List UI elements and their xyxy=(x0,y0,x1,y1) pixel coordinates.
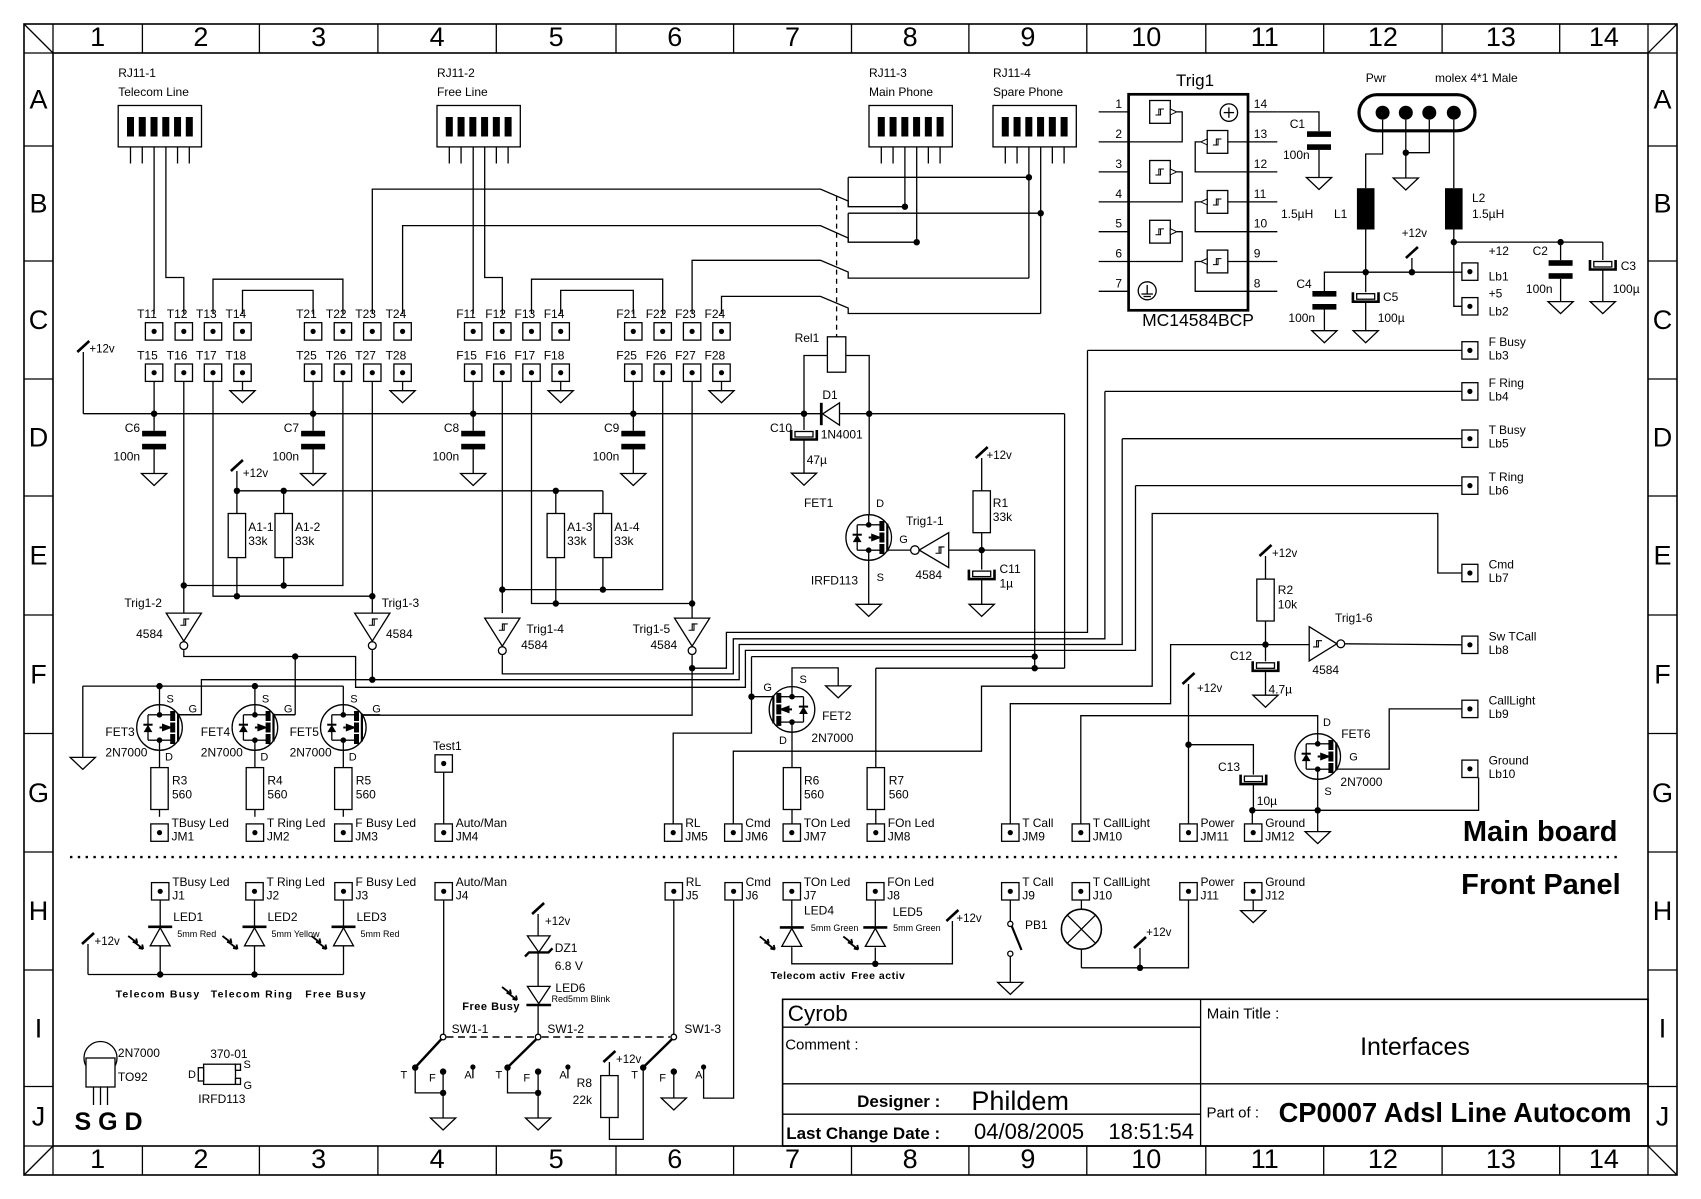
svg-text:T: T xyxy=(401,1070,408,1082)
svg-text:+12v: +12v xyxy=(95,936,121,948)
svg-text:T24: T24 xyxy=(386,307,407,321)
+12v switch symbol xyxy=(1402,228,1428,275)
ground at FET2 source xyxy=(792,668,851,698)
svg-text:33k: 33k xyxy=(567,534,587,548)
svg-text:H: H xyxy=(29,896,49,926)
label Telecom Busy xyxy=(116,989,201,1001)
svg-text:RJ11-2: RJ11-2 xyxy=(437,66,475,80)
connector RJ11-2 xyxy=(437,66,520,164)
svg-text:F11: F11 xyxy=(456,307,476,321)
svg-text:D: D xyxy=(29,423,49,453)
svg-text:Cmd: Cmd xyxy=(1489,558,1514,572)
+12v supply symbol (front panel LEDs) xyxy=(82,933,120,975)
svg-text:Telecom Busy: Telecom Busy xyxy=(116,989,201,1001)
svg-text:5: 5 xyxy=(549,1144,564,1174)
svg-text:5mm Red: 5mm Red xyxy=(177,929,216,939)
svg-text:Front Panel: Front Panel xyxy=(1461,869,1621,901)
connector RJ11-4 xyxy=(993,66,1076,164)
svg-text:6.8 V: 6.8 V xyxy=(555,959,583,973)
connector J7 (TOn Led) xyxy=(783,875,850,903)
svg-text:22k: 22k xyxy=(573,1093,593,1107)
wire R2 bottom xyxy=(1262,621,1268,648)
wire Trig1-5 output to Lb3 (F Busy) xyxy=(692,350,1087,668)
svg-text:560: 560 xyxy=(889,788,909,802)
svg-text:T Busy: T Busy xyxy=(1489,423,1526,437)
wire T26 to T16 node xyxy=(184,381,343,588)
svg-text:LED5: LED5 xyxy=(893,905,923,919)
svg-text:FET5: FET5 xyxy=(290,725,320,739)
svg-text:Trig1-2: Trig1-2 xyxy=(124,596,162,610)
svg-text:3: 3 xyxy=(311,22,326,52)
svg-text:JM7: JM7 xyxy=(804,830,827,844)
wire LED4/LED5 to +12v xyxy=(792,921,953,967)
svg-text:9: 9 xyxy=(1020,22,1035,52)
svg-text:560: 560 xyxy=(356,788,376,802)
svg-text:4: 4 xyxy=(430,22,445,52)
svg-text:MC14584BCP: MC14584BCP xyxy=(1142,310,1254,330)
svg-text:D1: D1 xyxy=(822,388,838,402)
svg-text:D: D xyxy=(188,1069,196,1081)
svg-text:JM6: JM6 xyxy=(745,830,768,844)
svg-text:100n: 100n xyxy=(1283,148,1310,162)
capacitor C1 100n xyxy=(1283,117,1332,190)
svg-text:F23: F23 xyxy=(675,307,696,321)
terminal F11 xyxy=(456,307,482,340)
svg-text:JM1: JM1 xyxy=(172,830,195,844)
svg-text:JM2: JM2 xyxy=(267,830,290,844)
inverter Trig1-2 (4584) xyxy=(124,596,201,649)
svg-text:13: 13 xyxy=(1486,22,1516,52)
wire R6 to JM7 xyxy=(791,810,793,824)
wire loop T14 to T21 xyxy=(243,290,314,314)
connector J6 (Cmd) xyxy=(725,875,771,903)
wire FET2 gate xyxy=(748,694,773,700)
capacitor C12 4.7µ xyxy=(1230,645,1292,708)
svg-text:J8: J8 xyxy=(887,889,900,903)
switch SW1-3 xyxy=(640,900,721,1071)
connector J3 (F Busy Led) xyxy=(335,875,416,903)
svg-text:Trig1-6: Trig1-6 xyxy=(1335,611,1373,625)
terminal F25 xyxy=(616,349,642,382)
svg-text:+12v: +12v xyxy=(1272,548,1298,560)
svg-text:I: I xyxy=(1659,1013,1667,1043)
svg-text:560: 560 xyxy=(804,788,824,802)
svg-text:A: A xyxy=(695,1070,703,1082)
svg-text:A: A xyxy=(1653,85,1671,115)
resistor R7 560 xyxy=(867,768,909,810)
connector J11 (Power) xyxy=(1180,875,1235,903)
svg-text:F16: F16 xyxy=(485,349,506,363)
label connector Lb5 (T Busy) xyxy=(1462,423,1526,451)
svg-text:10: 10 xyxy=(1254,217,1268,231)
svg-text:Cyrob: Cyrob xyxy=(788,1001,848,1026)
wire T16 to Trig1-2 input xyxy=(181,381,187,613)
svg-text:C: C xyxy=(29,305,49,335)
svg-text:Power: Power xyxy=(1201,875,1235,889)
svg-text:33k: 33k xyxy=(993,510,1013,524)
svg-text:Lb1: Lb1 xyxy=(1489,270,1509,284)
wire ground bus to Lb10 xyxy=(1252,778,1478,811)
svg-text:F21: F21 xyxy=(616,307,637,321)
svg-text:+12v: +12v xyxy=(243,468,269,480)
svg-text:C5: C5 xyxy=(1383,290,1399,304)
wire T25 to bus xyxy=(312,381,314,413)
svg-text:F27: F27 xyxy=(675,349,696,363)
connector JM11 (Power) xyxy=(1180,816,1235,844)
svg-text:C11: C11 xyxy=(1000,562,1021,576)
svg-text:13: 13 xyxy=(1254,127,1268,141)
svg-text:6: 6 xyxy=(667,1144,682,1174)
svg-text:J4: J4 xyxy=(456,889,469,903)
terminal T18 xyxy=(226,349,252,382)
+12v supply symbol (R2) xyxy=(1260,545,1298,579)
wire loop F13 to F22 xyxy=(532,279,663,314)
+12v supply symbol (DZ1) xyxy=(532,903,570,936)
svg-text:33k: 33k xyxy=(295,534,315,548)
svg-text:LED3: LED3 xyxy=(357,910,387,924)
svg-text:JM10: JM10 xyxy=(1093,830,1123,844)
wire +5 to Lb2 xyxy=(1454,242,1470,306)
ground at T28 xyxy=(390,381,415,402)
SW1-2 contacts and ground xyxy=(496,1064,571,1130)
transistor FET6 2N7000 xyxy=(1295,717,1383,798)
terminal T22 xyxy=(326,307,352,340)
connector J12 (Ground) xyxy=(1245,875,1306,903)
LED LED3 5mm Red xyxy=(312,900,400,975)
svg-text:5mm Green: 5mm Green xyxy=(893,923,941,933)
svg-text:F Busy: F Busy xyxy=(1489,335,1526,349)
svg-text:T13: T13 xyxy=(196,307,217,321)
terminal F13 xyxy=(515,307,541,340)
svg-text:F Busy Led: F Busy Led xyxy=(356,875,417,889)
svg-text:A: A xyxy=(464,1070,472,1082)
svg-text:12: 12 xyxy=(1368,22,1398,52)
svg-text:J2: J2 xyxy=(267,889,280,903)
svg-text:8: 8 xyxy=(903,22,918,52)
terminal T16 xyxy=(167,349,193,382)
wire LED5 cathode down xyxy=(874,948,876,964)
capacitor C13 10µ xyxy=(1218,760,1277,810)
svg-text:C13: C13 xyxy=(1218,760,1240,774)
connector J9 (T Call) xyxy=(1002,875,1054,903)
svg-text:S G D: S G D xyxy=(75,1108,143,1136)
connector JM3 (F Busy Led) xyxy=(335,816,416,844)
svg-text:10µ: 10µ xyxy=(1257,794,1277,808)
inductor L2 1.5µH xyxy=(1445,188,1504,229)
title block xyxy=(783,999,1648,1146)
terminal T28 xyxy=(386,349,412,382)
wire FET2 drain to R6 xyxy=(791,732,793,767)
svg-text:C1: C1 xyxy=(1290,117,1306,131)
svg-text:J: J xyxy=(32,1101,46,1131)
terminal T14 xyxy=(226,307,252,340)
svg-text:1: 1 xyxy=(1115,97,1122,111)
label Free activ xyxy=(851,970,905,982)
svg-text:S: S xyxy=(167,694,174,706)
svg-text:11: 11 xyxy=(1251,1144,1279,1174)
wire RJ11-2 pin4 to F12 xyxy=(485,147,503,314)
svg-text:FOn Led: FOn Led xyxy=(887,875,934,889)
svg-text:+12v: +12v xyxy=(956,913,982,925)
svg-text:4.7µ: 4.7µ xyxy=(1269,683,1293,697)
svg-text:1: 1 xyxy=(90,22,105,52)
wire Trig1-5 output to FET5 gate xyxy=(362,655,696,715)
svg-text:Lb10: Lb10 xyxy=(1489,767,1516,781)
resistor A1-4 33k xyxy=(594,514,640,558)
zener diode DZ1 6.8V xyxy=(525,936,583,973)
labels LED4 xyxy=(804,904,858,934)
LED LED4 5mm Green xyxy=(760,900,804,950)
svg-text:4584: 4584 xyxy=(1312,663,1339,677)
wire JM10 to FET6 drain xyxy=(1081,716,1318,824)
capacitor C7 100n xyxy=(272,414,325,486)
svg-text:1N4001: 1N4001 xyxy=(821,428,863,442)
svg-text:100n: 100n xyxy=(1288,311,1315,325)
terminal F21 xyxy=(616,307,642,340)
package drawing 2N7000 TO92 xyxy=(75,1042,161,1137)
svg-text:4584: 4584 xyxy=(136,627,163,641)
label connector Lb3 (F Busy) xyxy=(1462,335,1526,363)
svg-text:F28: F28 xyxy=(705,349,726,363)
svg-text:S: S xyxy=(800,674,807,686)
inverter Trig1-6 (4584) xyxy=(1309,611,1373,677)
wire F23 to RJ11-4 pin3 (with diagonal jog) xyxy=(692,260,1029,314)
svg-text:A: A xyxy=(559,1070,567,1082)
svg-text:PB1: PB1 xyxy=(1025,918,1048,932)
svg-text:Trig1-3: Trig1-3 xyxy=(382,596,420,610)
capacitor C2 100n xyxy=(1526,242,1573,314)
dotted separator line xyxy=(70,856,1620,858)
svg-text:J7: J7 xyxy=(804,889,817,903)
svg-text:C9: C9 xyxy=(604,421,620,435)
wire JM6 (Cmd) to Lb7 xyxy=(733,514,1462,824)
svg-text:Free Busy: Free Busy xyxy=(462,1001,520,1013)
svg-text:JM5: JM5 xyxy=(685,830,708,844)
wire to FET4 gate xyxy=(294,657,296,715)
svg-text:F12: F12 xyxy=(485,307,506,321)
svg-text:RJ11-1: RJ11-1 xyxy=(118,66,156,80)
svg-text:D: D xyxy=(1323,717,1331,729)
svg-text:T: T xyxy=(496,1070,503,1082)
svg-text:S: S xyxy=(877,572,884,584)
svg-text:F22: F22 xyxy=(646,307,667,321)
svg-text:T17: T17 xyxy=(196,349,217,363)
wire FET2 gate to R1/C11 node xyxy=(752,656,1035,658)
wire F17 to F27 node xyxy=(532,381,696,606)
svg-text:G: G xyxy=(763,682,772,694)
svg-text:2: 2 xyxy=(193,22,208,52)
wire to Lb6 xyxy=(1136,485,1462,487)
label connector Lb6 (T Ring) xyxy=(1462,470,1524,498)
label connector Lb10 (Ground) xyxy=(1462,753,1529,781)
resistor R1 33k xyxy=(973,491,1013,533)
svg-text:Trig1-5: Trig1-5 xyxy=(633,622,671,636)
svg-text:Lb4: Lb4 xyxy=(1489,389,1509,403)
svg-text:D: D xyxy=(260,752,268,764)
svg-text:6: 6 xyxy=(667,22,682,52)
svg-text:JM4: JM4 xyxy=(456,830,479,844)
svg-text:J6: J6 xyxy=(746,889,759,903)
svg-text:T22: T22 xyxy=(326,307,347,321)
svg-text:Ground: Ground xyxy=(1489,753,1529,767)
svg-text:R1: R1 xyxy=(993,496,1009,510)
terminal T24 xyxy=(386,307,412,340)
connector JM8 (FOn Led) xyxy=(867,816,934,844)
svg-text:4584: 4584 xyxy=(386,627,413,641)
svg-text:G: G xyxy=(1349,752,1358,764)
wire RJ11-1 pin4 to T12 xyxy=(166,147,184,314)
ground at FET6 source xyxy=(1305,810,1330,843)
svg-text:D: D xyxy=(165,752,173,764)
resistor R3 560 xyxy=(151,768,193,810)
svg-text:+12v: +12v xyxy=(89,344,115,356)
wire sense bus drop xyxy=(876,414,1065,669)
wire JM9 (T Call) to Trig1-6 input xyxy=(1010,645,1309,824)
terminal F24 xyxy=(705,307,731,340)
svg-text:D: D xyxy=(779,735,787,747)
svg-text:Lb3: Lb3 xyxy=(1489,348,1509,362)
svg-text:7: 7 xyxy=(1115,276,1122,290)
svg-text:Trig1-4: Trig1-4 xyxy=(526,622,564,636)
svg-text:2: 2 xyxy=(1115,127,1122,141)
svg-text:1µ: 1µ xyxy=(1000,577,1014,591)
wire +12 to C13 xyxy=(1189,745,1254,775)
svg-text:J5: J5 xyxy=(686,889,699,903)
svg-text:J10: J10 xyxy=(1093,889,1113,903)
svg-text:11: 11 xyxy=(1251,22,1279,52)
wire LED anode bus xyxy=(88,971,344,977)
wire +5 rail xyxy=(1454,239,1603,245)
+12v supply symbol (A1 network) xyxy=(231,460,269,514)
capacitor C10 47µ xyxy=(770,414,827,486)
svg-text:Phildem: Phildem xyxy=(971,1086,1069,1116)
svg-text:TOn Led: TOn Led xyxy=(804,875,850,889)
wire RJ11-4 pin3 down xyxy=(1028,147,1030,278)
resistor A1-3 33k xyxy=(547,514,593,558)
LED LED1 5mm Red xyxy=(128,900,216,975)
terminal F27 xyxy=(675,349,701,382)
svg-text:RL: RL xyxy=(685,816,701,830)
connector JM9 (T Call) xyxy=(1002,816,1054,844)
ground at F18 xyxy=(548,381,573,402)
svg-text:CallLight: CallLight xyxy=(1489,693,1536,707)
svg-text:Trig1-1: Trig1-1 xyxy=(906,514,944,528)
svg-text:13: 13 xyxy=(1486,1144,1516,1174)
diode D1 1N4001 xyxy=(821,388,863,442)
connector JM10 (T CallLight) xyxy=(1072,816,1151,844)
resistor R2 10k xyxy=(1257,579,1298,621)
svg-text:Main board: Main board xyxy=(1463,816,1618,848)
svg-text:T14: T14 xyxy=(226,307,247,321)
svg-text:RJ11-3: RJ11-3 xyxy=(869,66,907,80)
resistor R6 560 xyxy=(783,768,824,810)
wire sense bus xyxy=(83,411,1064,417)
svg-text:Red5mm Blink: Red5mm Blink xyxy=(552,994,611,1004)
wire T15 to bus xyxy=(153,381,155,413)
svg-text:8: 8 xyxy=(1254,276,1261,290)
terminal F26 xyxy=(646,349,672,382)
svg-text:R5: R5 xyxy=(356,774,372,788)
svg-text:JM8: JM8 xyxy=(888,830,911,844)
svg-text:IRFD113: IRFD113 xyxy=(198,1092,245,1106)
terminal F12 xyxy=(485,307,511,340)
ground (LED driver source bus) xyxy=(70,686,95,769)
svg-text:10: 10 xyxy=(1131,1144,1161,1174)
svg-text:2: 2 xyxy=(193,1144,208,1174)
transistor FET4 2N7000 xyxy=(201,686,295,768)
wire molex pin2 to ground xyxy=(1393,120,1418,190)
svg-text:4584: 4584 xyxy=(915,568,942,582)
connector J10 (T CallLight) xyxy=(1072,875,1151,903)
terminal T11 xyxy=(137,307,163,340)
wire Trig1-2 output to Lb6 (T Ring) xyxy=(184,486,1136,688)
svg-text:100n: 100n xyxy=(432,450,459,464)
wire A1-3 bottom xyxy=(555,558,557,604)
connector RJ11-3 xyxy=(869,66,952,164)
wire F24 to RJ11-4 pin4 (with diagonal jog) xyxy=(722,296,1041,314)
svg-text:F: F xyxy=(1654,659,1671,689)
svg-text:2N7000: 2N7000 xyxy=(290,746,332,760)
svg-text:D: D xyxy=(1653,423,1673,453)
capacitor C9 100n xyxy=(593,414,646,486)
svg-text:T Ring: T Ring xyxy=(1489,470,1524,484)
svg-text:C4: C4 xyxy=(1296,277,1312,291)
svg-text:5mm Red: 5mm Red xyxy=(361,929,400,939)
wire to Lb4 xyxy=(1105,390,1462,392)
svg-text:TBusy Led: TBusy Led xyxy=(172,816,229,830)
svg-text:J3: J3 xyxy=(356,889,369,903)
svg-text:+12v: +12v xyxy=(1146,927,1172,939)
svg-text:Lb8: Lb8 xyxy=(1489,643,1509,657)
terminal T25 xyxy=(296,349,322,382)
resistor A1-1 33k xyxy=(228,514,274,558)
svg-text:J12: J12 xyxy=(1265,889,1285,903)
connector J5 (RL) xyxy=(665,875,701,903)
wire Trig1-1 input node xyxy=(949,547,985,553)
terminal F17 xyxy=(515,349,541,382)
connector JM12 (Ground) xyxy=(1245,816,1306,844)
svg-text:+12v: +12v xyxy=(987,450,1013,462)
svg-text:Telecom Ring: Telecom Ring xyxy=(211,989,293,1001)
transistor FET1 IRFD113 xyxy=(804,496,908,588)
svg-text:G: G xyxy=(189,704,198,716)
svg-text:H: H xyxy=(1653,896,1673,926)
svg-text:100µ: 100µ xyxy=(1613,282,1640,296)
svg-text:Telecom Line: Telecom Line xyxy=(118,85,189,99)
inverter Trig1-3 (4584) xyxy=(355,596,420,649)
svg-text:2N7000: 2N7000 xyxy=(811,731,853,745)
svg-text:JM9: JM9 xyxy=(1022,830,1045,844)
svg-text:T15: T15 xyxy=(137,349,158,363)
IC Trig1 MC14584BCP xyxy=(1099,71,1278,330)
svg-text:R8: R8 xyxy=(577,1076,593,1090)
svg-text:FOn Led: FOn Led xyxy=(888,816,935,830)
svg-text:LED4: LED4 xyxy=(804,904,834,918)
svg-text:FET6: FET6 xyxy=(1341,727,1371,741)
svg-text:T16: T16 xyxy=(167,349,188,363)
svg-text:370-01: 370-01 xyxy=(210,1047,248,1061)
wire ground bus to JM12 xyxy=(1249,807,1255,824)
svg-text:F25: F25 xyxy=(616,349,637,363)
svg-text:C: C xyxy=(1653,305,1673,335)
svg-text:D: D xyxy=(876,498,884,510)
svg-text:C3: C3 xyxy=(1621,259,1637,273)
svg-text:F24: F24 xyxy=(705,307,726,321)
svg-text:2N7000: 2N7000 xyxy=(201,746,243,760)
svg-text:E: E xyxy=(29,541,47,571)
svg-text:Lb9: Lb9 xyxy=(1489,707,1509,721)
capacitor C4 100n xyxy=(1288,277,1337,343)
